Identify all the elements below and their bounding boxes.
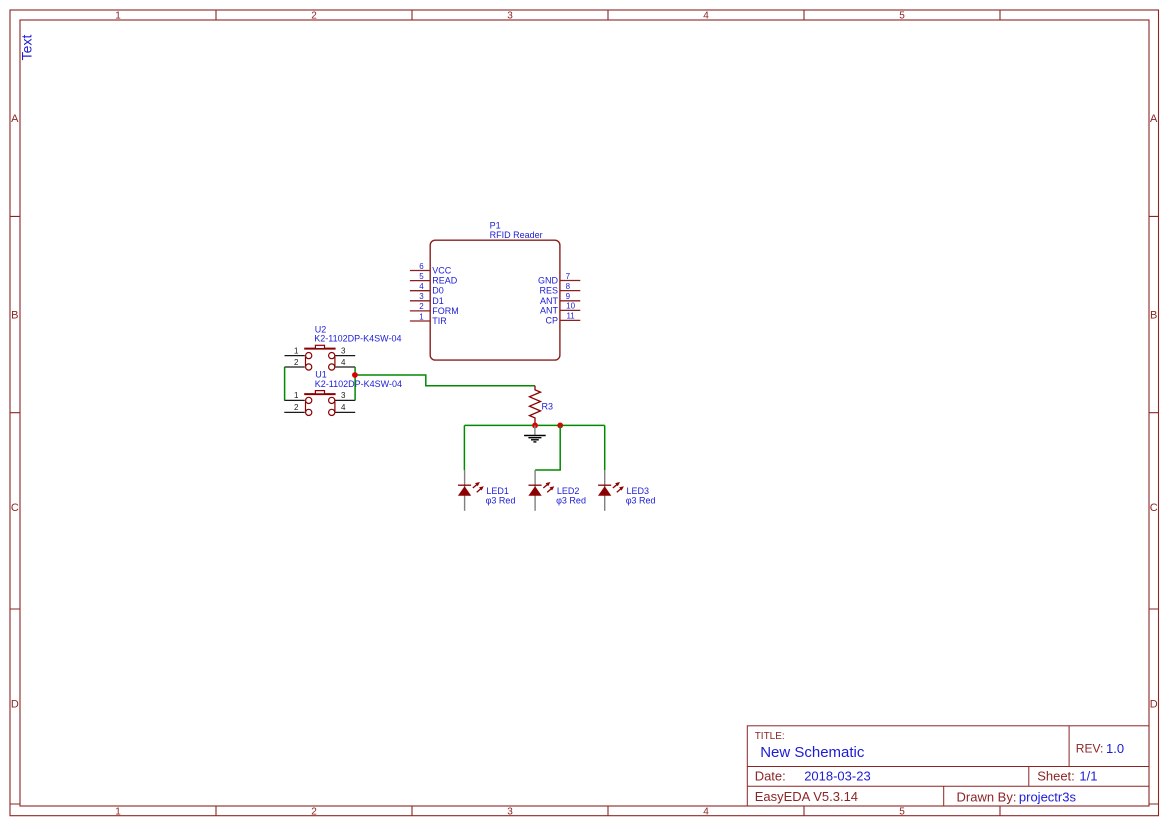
svg-text:2: 2 <box>311 807 317 818</box>
switch U2 pin 1 lead <box>285 355 305 357</box>
wire ground rail <box>464 424 604 426</box>
svg-text:New Schematic: New Schematic <box>760 744 865 761</box>
svg-text:EasyEDA V5.3.14: EasyEDA V5.3.14 <box>755 789 858 804</box>
switch U2 button bar <box>304 348 335 350</box>
wire switch node to R3 <box>355 375 535 386</box>
switch U1 button bar <box>304 393 335 395</box>
svg-text:4: 4 <box>341 403 346 412</box>
column numbers bottom <box>115 807 905 818</box>
svg-text:D: D <box>1150 698 1158 710</box>
wire rail to LED2 <box>535 425 560 470</box>
svg-text:CP: CP <box>545 315 558 325</box>
column ticks bottom <box>216 806 1000 816</box>
switch U2 button cap <box>315 345 324 348</box>
pin 10 ANT <box>540 302 580 316</box>
svg-text:B: B <box>1150 309 1157 321</box>
junction LED2 tap <box>557 423 563 429</box>
switch U2 pin 2 lead <box>285 366 305 368</box>
svg-text:6: 6 <box>419 262 424 271</box>
svg-text:11: 11 <box>566 312 575 321</box>
pin 7 GND <box>538 272 580 286</box>
svg-text:K2-1102DP-K4SW-04: K2-1102DP-K4SW-04 <box>315 379 402 389</box>
switch U1 pin 1 lead <box>284 399 305 401</box>
svg-text:4: 4 <box>703 11 709 22</box>
svg-text:REV:: REV: <box>1076 742 1104 756</box>
row ticks right <box>1149 216 1159 804</box>
svg-text:1/1: 1/1 <box>1079 769 1097 784</box>
svg-text:3: 3 <box>507 807 513 818</box>
svg-text:RFID Reader: RFID Reader <box>490 230 543 240</box>
switch U1 button cap <box>315 391 324 394</box>
svg-text:P1: P1 <box>490 220 501 230</box>
switch U2 pin 4 lead <box>335 366 355 368</box>
svg-text:φ3 Red: φ3 Red <box>486 496 516 506</box>
svg-text:2018-03-23: 2018-03-23 <box>804 769 871 784</box>
junction R3-rail <box>532 423 538 429</box>
svg-text:B: B <box>11 309 18 321</box>
svg-text:4: 4 <box>703 807 709 818</box>
svg-text:3: 3 <box>341 391 346 400</box>
svg-text:4: 4 <box>341 358 346 367</box>
switch U1 pin 4 lead <box>335 411 355 413</box>
svg-text:1: 1 <box>294 391 299 400</box>
svg-text:φ3 Red: φ3 Red <box>626 496 656 506</box>
row letters left <box>11 113 19 711</box>
svg-text:projectr3s: projectr3s <box>1019 789 1077 804</box>
svg-text:1: 1 <box>115 11 121 22</box>
row ticks left <box>10 216 20 804</box>
pin 11 CP <box>545 312 580 326</box>
svg-text:8: 8 <box>566 282 571 291</box>
svg-text:GND: GND <box>538 276 559 286</box>
svg-text:FORM: FORM <box>432 306 459 316</box>
pin 5 READ <box>410 272 458 286</box>
LED LED1 <box>458 470 516 511</box>
svg-text:TITLE:: TITLE: <box>755 731 785 742</box>
svg-text:D: D <box>11 698 19 710</box>
svg-text:1: 1 <box>115 807 121 818</box>
svg-text:R3: R3 <box>542 401 554 411</box>
switch U1 pin 3 lead <box>335 399 355 401</box>
pin 1 TIR <box>410 312 447 326</box>
svg-text:φ3 Red: φ3 Red <box>556 496 586 506</box>
svg-text:3: 3 <box>341 346 346 355</box>
junction switch node <box>352 372 358 378</box>
column numbers top <box>115 11 905 22</box>
svg-text:LED1: LED1 <box>486 486 509 496</box>
switch U1 contact circles <box>306 397 335 415</box>
switch U2 contact circles <box>306 353 335 371</box>
svg-text:C: C <box>11 502 19 514</box>
svg-text:READ: READ <box>432 276 458 286</box>
svg-text:3: 3 <box>507 11 513 22</box>
chip P1 body <box>430 240 560 360</box>
pin 6 VCC <box>410 262 452 276</box>
svg-text:A: A <box>11 113 19 125</box>
svg-text:7: 7 <box>566 272 571 281</box>
svg-text:C: C <box>1150 502 1158 514</box>
svg-text:5: 5 <box>419 272 424 281</box>
svg-text:4: 4 <box>419 282 424 291</box>
svg-text:1: 1 <box>294 346 299 355</box>
pin 2 FORM <box>410 302 459 316</box>
wire U2.2 to U1.1 <box>284 367 286 400</box>
svg-text:D1: D1 <box>432 296 444 306</box>
svg-text:2: 2 <box>419 302 424 311</box>
svg-text:5: 5 <box>899 807 905 818</box>
pin 4 D0 <box>410 282 444 296</box>
wire rail to LED1 <box>463 425 465 470</box>
svg-text:9: 9 <box>566 292 571 301</box>
svg-text:ANT: ANT <box>540 305 559 315</box>
wire U2.4 to U1.3 <box>354 367 356 400</box>
svg-text:1.0: 1.0 <box>1106 741 1124 756</box>
svg-text:10: 10 <box>566 302 575 311</box>
svg-text:VCC: VCC <box>432 266 452 276</box>
ground <box>524 425 546 442</box>
svg-text:2: 2 <box>294 358 299 367</box>
pin 3 D1 <box>410 292 444 306</box>
svg-text:LED3: LED3 <box>627 486 650 496</box>
svg-text:1: 1 <box>419 312 424 321</box>
svg-text:Drawn By:: Drawn By: <box>957 789 1017 804</box>
pin 8 RES <box>539 282 580 296</box>
svg-text:Date:: Date: <box>755 769 786 784</box>
svg-text:RES: RES <box>539 286 558 296</box>
row letters right <box>1150 113 1158 711</box>
svg-text:2: 2 <box>311 11 317 22</box>
switch U1 pin 2 lead <box>284 411 305 413</box>
LED LED2 <box>528 470 586 511</box>
svg-text:A: A <box>1150 113 1158 125</box>
LED LED3 <box>598 470 656 511</box>
svg-text:Text: Text <box>19 35 35 61</box>
svg-text:Sheet:: Sheet: <box>1037 769 1075 784</box>
svg-text:2: 2 <box>294 403 299 412</box>
resistor R3 <box>530 386 541 424</box>
svg-text:D0: D0 <box>432 286 444 296</box>
svg-text:5: 5 <box>899 11 905 22</box>
svg-text:LED2: LED2 <box>557 486 580 496</box>
column ticks top <box>216 10 1000 20</box>
svg-text:ANT: ANT <box>540 296 559 306</box>
svg-text:3: 3 <box>419 292 424 301</box>
wire rail to LED3 <box>604 425 606 470</box>
pin 9 ANT <box>540 292 580 306</box>
svg-text:K2-1102DP-K4SW-04: K2-1102DP-K4SW-04 <box>314 333 401 343</box>
switch U2 pin 3 lead <box>335 355 355 357</box>
svg-text:TIR: TIR <box>432 316 447 326</box>
